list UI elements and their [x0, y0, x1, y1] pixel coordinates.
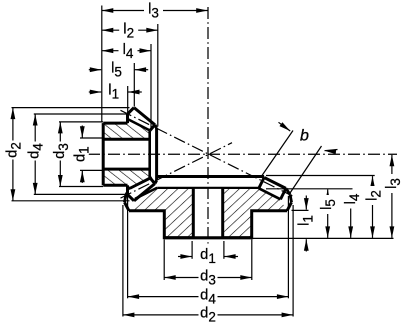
- svg-text:b: b: [300, 128, 309, 145]
